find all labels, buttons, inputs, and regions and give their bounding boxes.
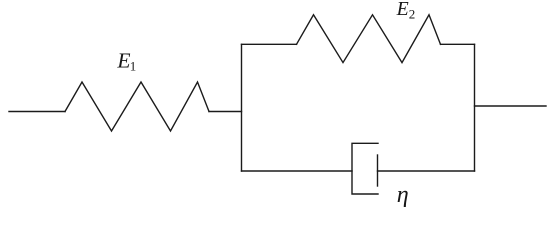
dashpot η piston — [377, 155, 379, 186]
wire bottom branch left — [242, 170, 353, 172]
wire bottom branch right — [378, 170, 475, 172]
label E2 — [396, 0, 416, 21]
svg-text:η: η — [397, 182, 409, 208]
svg-text:1: 1 — [130, 58, 137, 73]
wire right terminal — [475, 105, 547, 107]
spring E1 — [65, 82, 209, 131]
label E1 — [116, 48, 136, 73]
wire top branch right — [441, 43, 475, 45]
dashpot η cylinder — [352, 143, 378, 194]
wire spring E1 to node A — [209, 111, 242, 113]
wire left terminal — [9, 111, 65, 113]
svg-text:E: E — [396, 0, 409, 20]
svg-text:E: E — [116, 48, 130, 72]
wire top branch left — [242, 43, 297, 45]
node A left junction vertical — [241, 44, 243, 171]
svg-text:2: 2 — [409, 6, 416, 21]
node B right junction vertical — [474, 44, 476, 171]
spring E2 — [297, 15, 441, 63]
label η — [397, 182, 409, 208]
